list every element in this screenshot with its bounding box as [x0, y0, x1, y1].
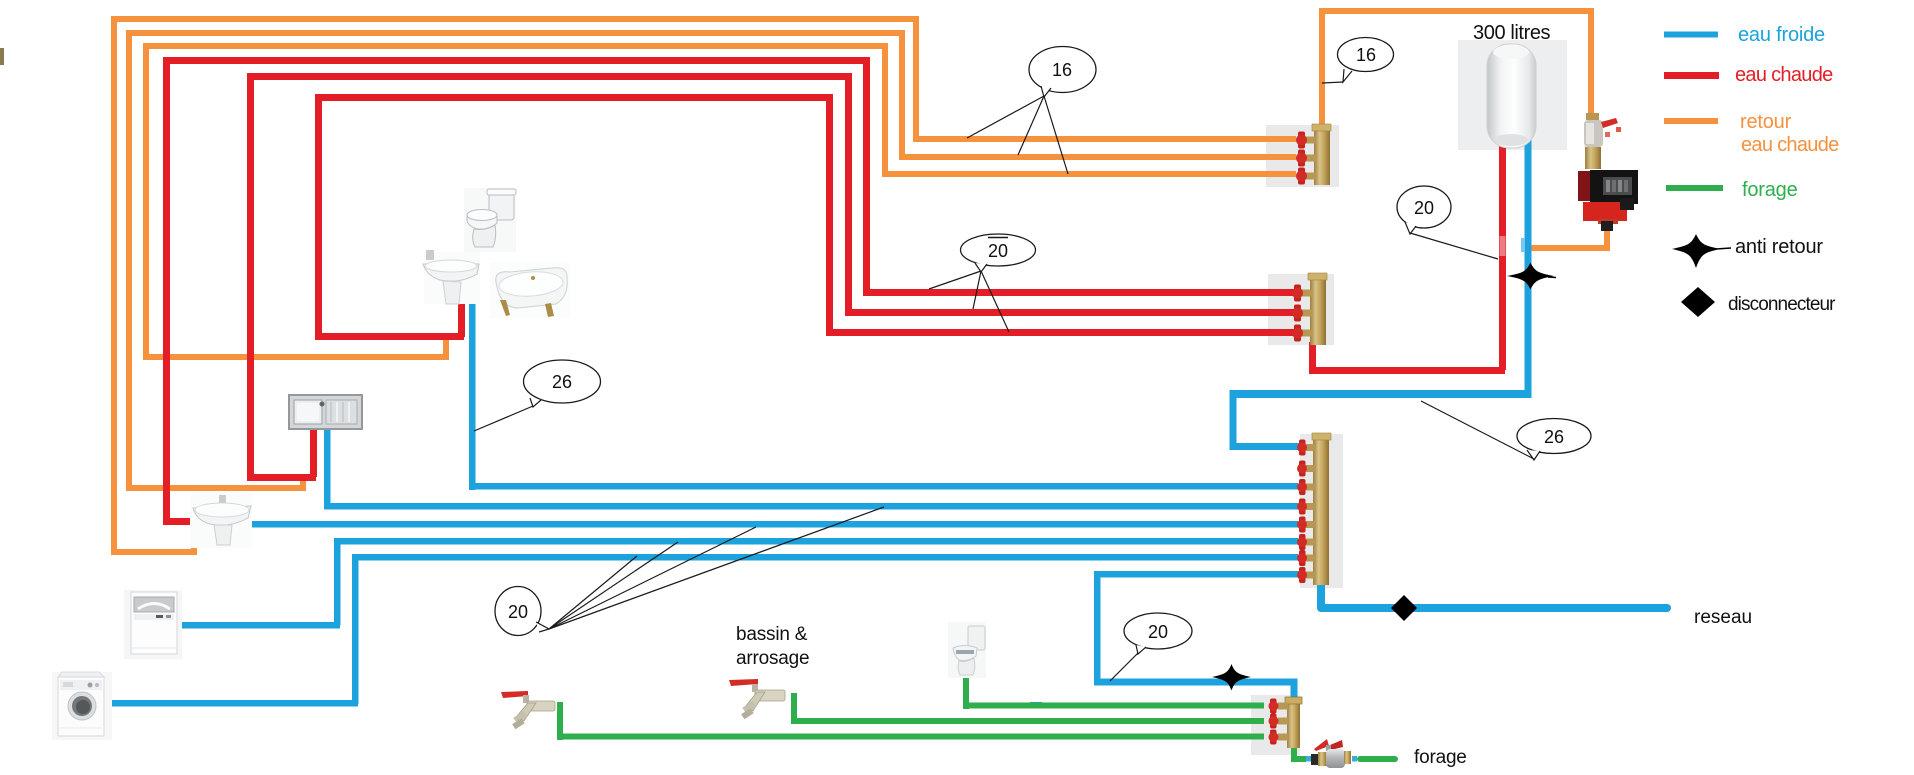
svg-text:disconnecteur: disconnecteur — [1728, 294, 1836, 315]
svg-text:26: 26 — [552, 372, 572, 392]
svg-text:20: 20 — [988, 241, 1008, 261]
svg-text:forage: forage — [1414, 747, 1467, 768]
svg-text:retour: retour — [1740, 111, 1792, 133]
svg-text:20: 20 — [1414, 198, 1434, 218]
svg-text:16: 16 — [1052, 60, 1072, 80]
svg-text:20: 20 — [508, 602, 528, 622]
svg-text:eau froide: eau froide — [1738, 24, 1825, 46]
svg-text:eau chaude: eau chaude — [1741, 134, 1839, 156]
svg-text:eau chaude: eau chaude — [1735, 64, 1833, 86]
svg-text:reseau: reseau — [1694, 607, 1752, 628]
svg-text:arrosage: arrosage — [736, 648, 809, 669]
svg-text:20: 20 — [1148, 622, 1168, 642]
svg-text:26: 26 — [1544, 427, 1564, 447]
svg-text:16: 16 — [1356, 45, 1376, 65]
svg-text:300 litres: 300 litres — [1473, 22, 1551, 44]
svg-text:forage: forage — [1742, 179, 1798, 201]
svg-text:anti retour: anti retour — [1735, 236, 1823, 258]
svg-text:bassin &: bassin & — [736, 624, 808, 645]
